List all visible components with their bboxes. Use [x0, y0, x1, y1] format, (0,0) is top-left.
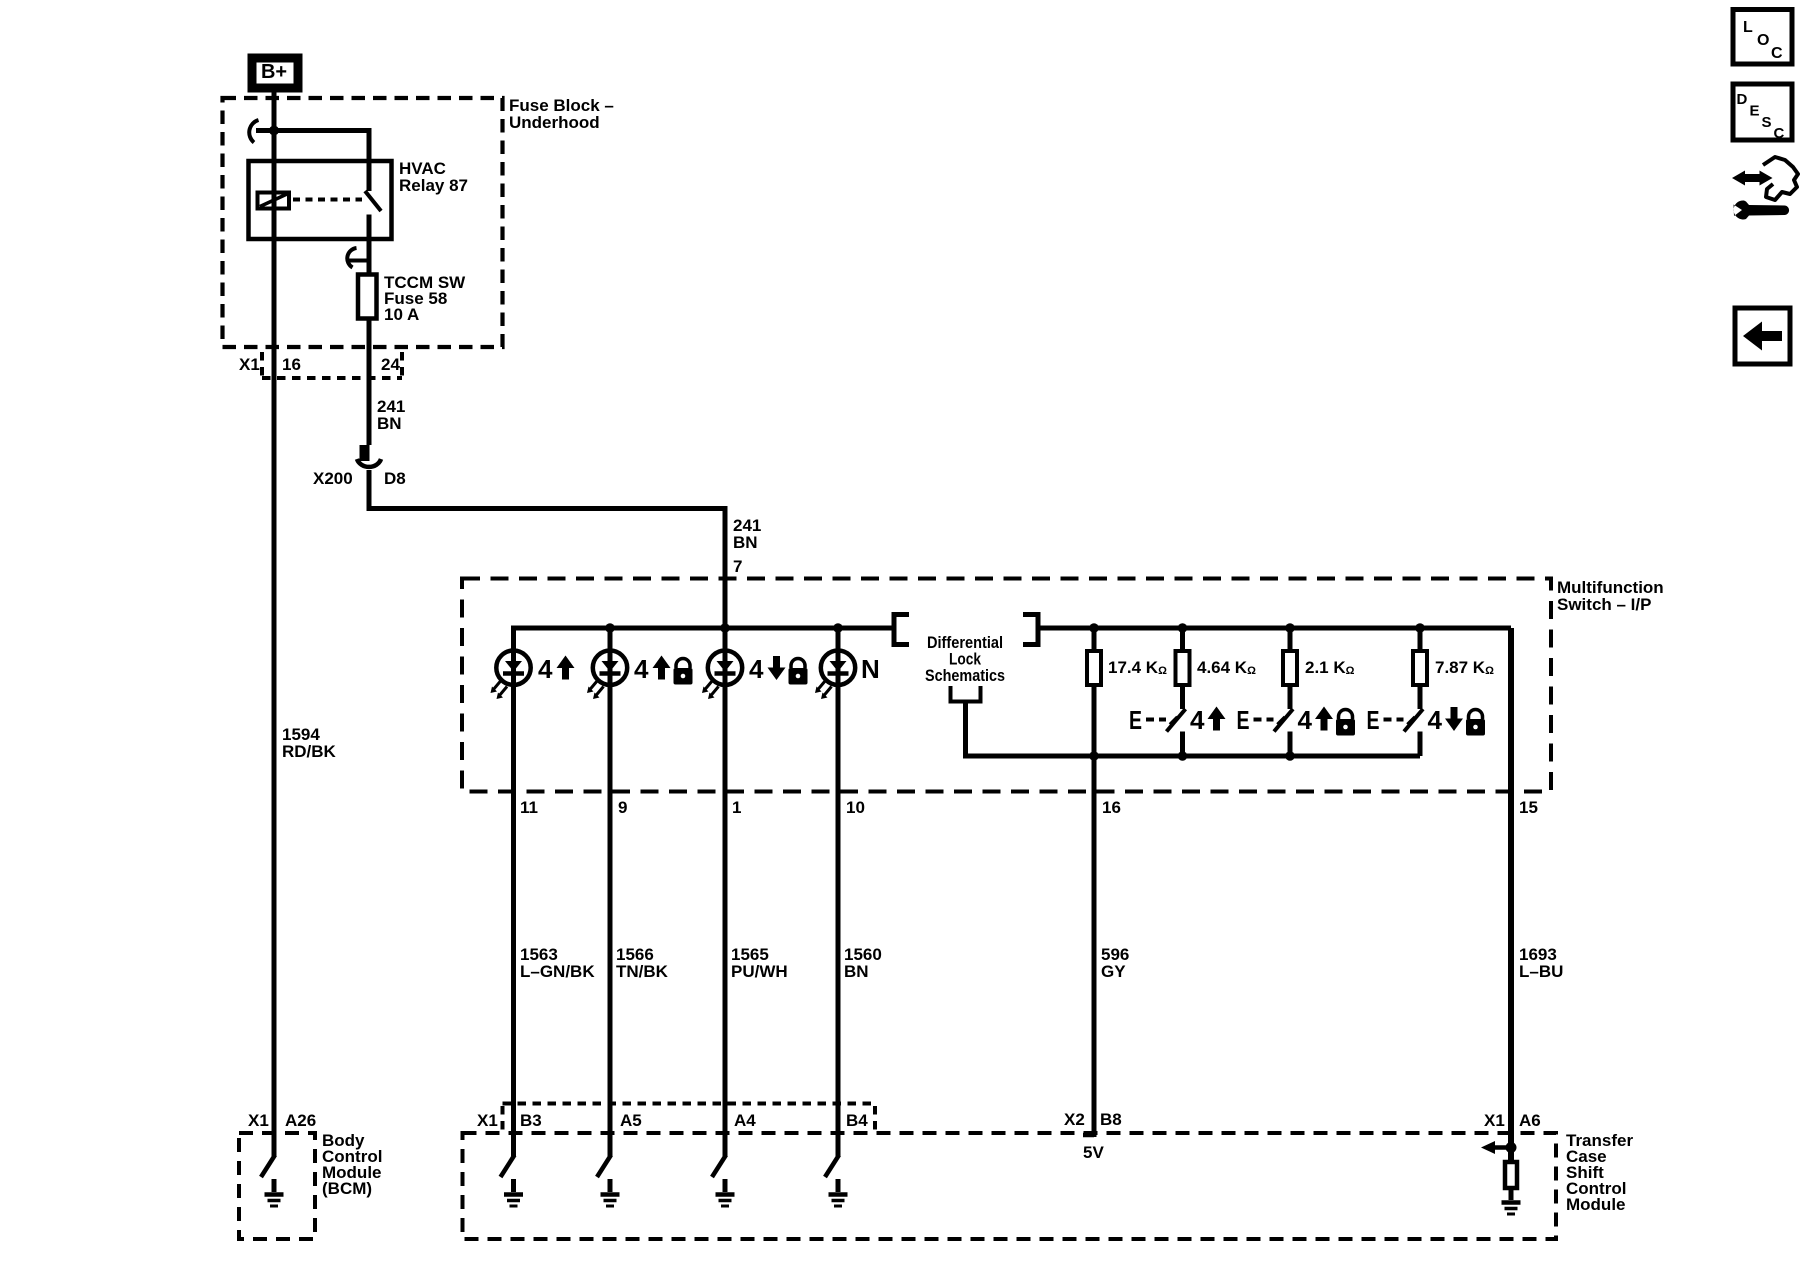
switch S2 label 4 up lock	[1298, 705, 1356, 736]
node junctions on bus	[605, 623, 1425, 633]
wire pin 16 output	[1092, 756, 1097, 1137]
fuse F58	[358, 275, 377, 319]
svg-text:O: O	[1757, 32, 1769, 49]
switch to ground pin A4	[712, 1155, 735, 1206]
wire label 1693 L-BU	[1519, 945, 1563, 981]
svg-text:RD/BK: RD/BK	[282, 742, 337, 761]
relay K HVAC box	[249, 161, 392, 239]
svg-text:TN/BK: TN/BK	[616, 962, 669, 981]
svg-text:S: S	[1762, 114, 1772, 131]
LED label 4 up	[538, 654, 575, 684]
relay linkage dashed	[293, 198, 362, 202]
svg-text:A26: A26	[285, 1111, 316, 1130]
LED indicator 4HI	[491, 645, 531, 792]
svg-text:4: 4	[1298, 705, 1313, 735]
svg-text:PU/WH: PU/WH	[731, 962, 788, 981]
svg-text:Module: Module	[1566, 1195, 1626, 1214]
svg-text:X1: X1	[477, 1111, 498, 1130]
svg-text:BN: BN	[844, 962, 869, 981]
ground inside BCM	[265, 1179, 284, 1206]
svg-text:X1: X1	[1484, 1111, 1505, 1130]
svg-text:E: E	[1750, 103, 1760, 120]
inline connector X200 D8	[357, 445, 381, 467]
svg-text:10 A: 10 A	[384, 305, 419, 324]
wire LED1 to BCM-side pin B3	[511, 792, 516, 1157]
ground inside transfer case module	[1502, 1203, 1521, 1215]
svg-text:10: 10	[846, 798, 865, 817]
switch S1 label 4 up	[1190, 705, 1226, 735]
connector X1 strip of fuse block	[262, 352, 402, 378]
node junction at B+ branch	[269, 126, 279, 136]
multifunction switch dashed box	[462, 579, 1551, 792]
wire pin 16 terminal foot	[1083, 1133, 1094, 1138]
fuse block underhood dashed box	[223, 98, 503, 347]
switch S3 4LO lock	[1384, 709, 1424, 756]
wire label 241 BN upper	[377, 397, 405, 433]
svg-text:4: 4	[749, 654, 764, 684]
switch S2 4HI lock	[1254, 709, 1294, 756]
connector label X1 A6	[1484, 1111, 1541, 1130]
wire B+ vertical to BCM	[272, 90, 277, 1156]
connector label X1 A26 at BCM	[248, 1111, 316, 1130]
wire resistor to ground	[1509, 1190, 1514, 1200]
wire X200 down and across to pin 7	[369, 470, 725, 628]
svg-text:B+: B+	[261, 61, 287, 83]
svg-text:E: E	[1237, 705, 1250, 735]
fuse label TCCM SW Fuse 58 10A	[384, 273, 466, 324]
LED indicator Neutral	[815, 628, 855, 792]
transfer case shift control module dashed box	[463, 1133, 1557, 1239]
svg-text:X1: X1	[239, 355, 260, 374]
multifunction switch label	[1557, 578, 1664, 614]
svg-text:D8: D8	[384, 469, 406, 488]
svg-text:X2: X2	[1064, 1110, 1085, 1129]
LOC navigation box icon	[1733, 10, 1792, 65]
svg-text:C: C	[1774, 125, 1785, 142]
wire LED2 to pin A5	[608, 792, 613, 1157]
wire fuse output down	[367, 319, 372, 446]
wire LED3 to pin A4	[723, 792, 728, 1157]
svg-text:Switch – I/P: Switch – I/P	[1557, 595, 1651, 614]
svg-text:16: 16	[1102, 798, 1121, 817]
bracket closing for differential lock callout	[1023, 615, 1038, 645]
LED indicator 4HI lock	[587, 628, 627, 792]
svg-text:(BCM): (BCM)	[322, 1179, 372, 1198]
hook terminal on relay branch	[249, 120, 258, 143]
connector strip X1 of transfer case module	[503, 1104, 876, 1131]
back arrow box icon	[1735, 308, 1790, 364]
svg-text:X1: X1	[248, 1111, 269, 1130]
relay switch blade	[365, 191, 381, 211]
svg-text:GY: GY	[1101, 962, 1126, 981]
svg-text:D: D	[1737, 91, 1748, 108]
node junctions on common	[1089, 751, 1295, 761]
LED label 4 down lock	[749, 654, 808, 685]
svg-text:9: 9	[618, 798, 627, 817]
resistor R3 2.1K	[1283, 628, 1297, 709]
svg-text:L: L	[1743, 19, 1753, 36]
internal resistor at pin A6	[1505, 1162, 1517, 1188]
svg-text:E: E	[1129, 705, 1142, 735]
switch to ground pin B3	[501, 1155, 524, 1206]
svg-text:B3: B3	[520, 1111, 542, 1130]
switch to ground inside BCM	[261, 1155, 275, 1177]
svg-text:A5: A5	[620, 1111, 642, 1130]
svg-text:L–BU: L–BU	[1519, 962, 1563, 981]
svg-text:BN: BN	[377, 414, 402, 433]
connector label X1 16 24	[239, 355, 400, 374]
switch to ground pin B4	[825, 1155, 848, 1206]
wire label 1566 TN/BK	[616, 945, 669, 981]
svg-text:15: 15	[1519, 798, 1538, 817]
transfer case shift control module label	[1566, 1131, 1633, 1214]
differential lock connection bracket	[951, 686, 981, 702]
LED label 4 up lock	[634, 654, 693, 685]
svg-text:16: 16	[282, 355, 301, 374]
svg-text:4: 4	[1190, 705, 1205, 735]
svg-text:4: 4	[1428, 705, 1443, 735]
wire label 596 GY	[1101, 945, 1129, 981]
svg-text:4: 4	[538, 654, 553, 684]
wrench icon	[1734, 200, 1790, 219]
wire LED4 to pin B4	[836, 792, 841, 1157]
svg-text:BN: BN	[733, 533, 758, 552]
wire label 1563 L-GN/BK	[520, 945, 595, 981]
svg-text:X200: X200	[313, 469, 353, 488]
svg-text:N: N	[861, 654, 880, 684]
schematic navigation arrows icon	[1732, 157, 1798, 200]
relay coil	[258, 193, 290, 209]
wire differential lock to resistor net	[966, 702, 1095, 757]
svg-text:B4: B4	[846, 1111, 868, 1130]
hook terminal above fuse	[347, 248, 369, 268]
battery feed B+ box	[252, 58, 298, 88]
wire label 241 BN lower	[733, 516, 761, 552]
differential lock schematics label	[925, 633, 1005, 685]
svg-text:E: E	[1367, 705, 1380, 735]
svg-text:1: 1	[732, 798, 741, 817]
wire label 1565 PU/WH	[731, 945, 788, 981]
pin labels row	[520, 798, 1538, 817]
svg-text:L–GN/BK: L–GN/BK	[520, 962, 595, 981]
fuse block underhood label	[509, 96, 614, 132]
wire lamp bus left	[514, 628, 894, 645]
connector label X2 B8	[1064, 1110, 1122, 1129]
resistor R2 4.64K	[1176, 628, 1190, 709]
relay label HVAC Relay 87	[399, 159, 468, 195]
svg-text:24: 24	[381, 355, 400, 374]
svg-text:11: 11	[520, 798, 538, 817]
BCM label	[322, 1131, 382, 1198]
LED indicator 4LO lock	[702, 628, 742, 792]
switch S1 4HI	[1146, 709, 1186, 756]
node junction at pin A6 input	[1506, 1142, 1517, 1153]
wire switch common bottom	[1094, 754, 1420, 759]
connector label X200 D8	[313, 469, 406, 488]
wire relay output to fuse	[367, 215, 372, 275]
BCM dashed box	[239, 1133, 315, 1239]
svg-text:B8: B8	[1100, 1110, 1122, 1129]
svg-text:A6: A6	[1519, 1111, 1541, 1130]
resistor R1 17.4K	[1087, 628, 1101, 756]
svg-text:Relay 87: Relay 87	[399, 176, 468, 195]
wire label 1560 BN	[844, 945, 882, 981]
wire lamp bus right	[1038, 626, 1511, 631]
svg-text:C: C	[1771, 45, 1783, 62]
svg-text:Schematics: Schematics	[925, 666, 1005, 685]
switch to ground pin A5	[597, 1155, 620, 1206]
svg-text:4: 4	[634, 654, 649, 684]
svg-text:Underhood: Underhood	[509, 113, 600, 132]
svg-text:5V: 5V	[1083, 1143, 1104, 1162]
switch S3 label 4 down lock	[1428, 705, 1486, 736]
svg-text:A4: A4	[734, 1111, 756, 1130]
DESC navigation box icon	[1733, 84, 1792, 142]
wire label 1594 RD/BK	[282, 725, 337, 761]
internal 5V arrow branch	[1481, 1141, 1511, 1154]
wire pin 15 output	[1508, 628, 1514, 1160]
wire relay branch horizontal	[256, 131, 369, 192]
bracket opening for differential lock callout	[894, 615, 909, 645]
resistor R4 7.87K	[1413, 628, 1427, 709]
svg-text:7: 7	[733, 557, 742, 576]
